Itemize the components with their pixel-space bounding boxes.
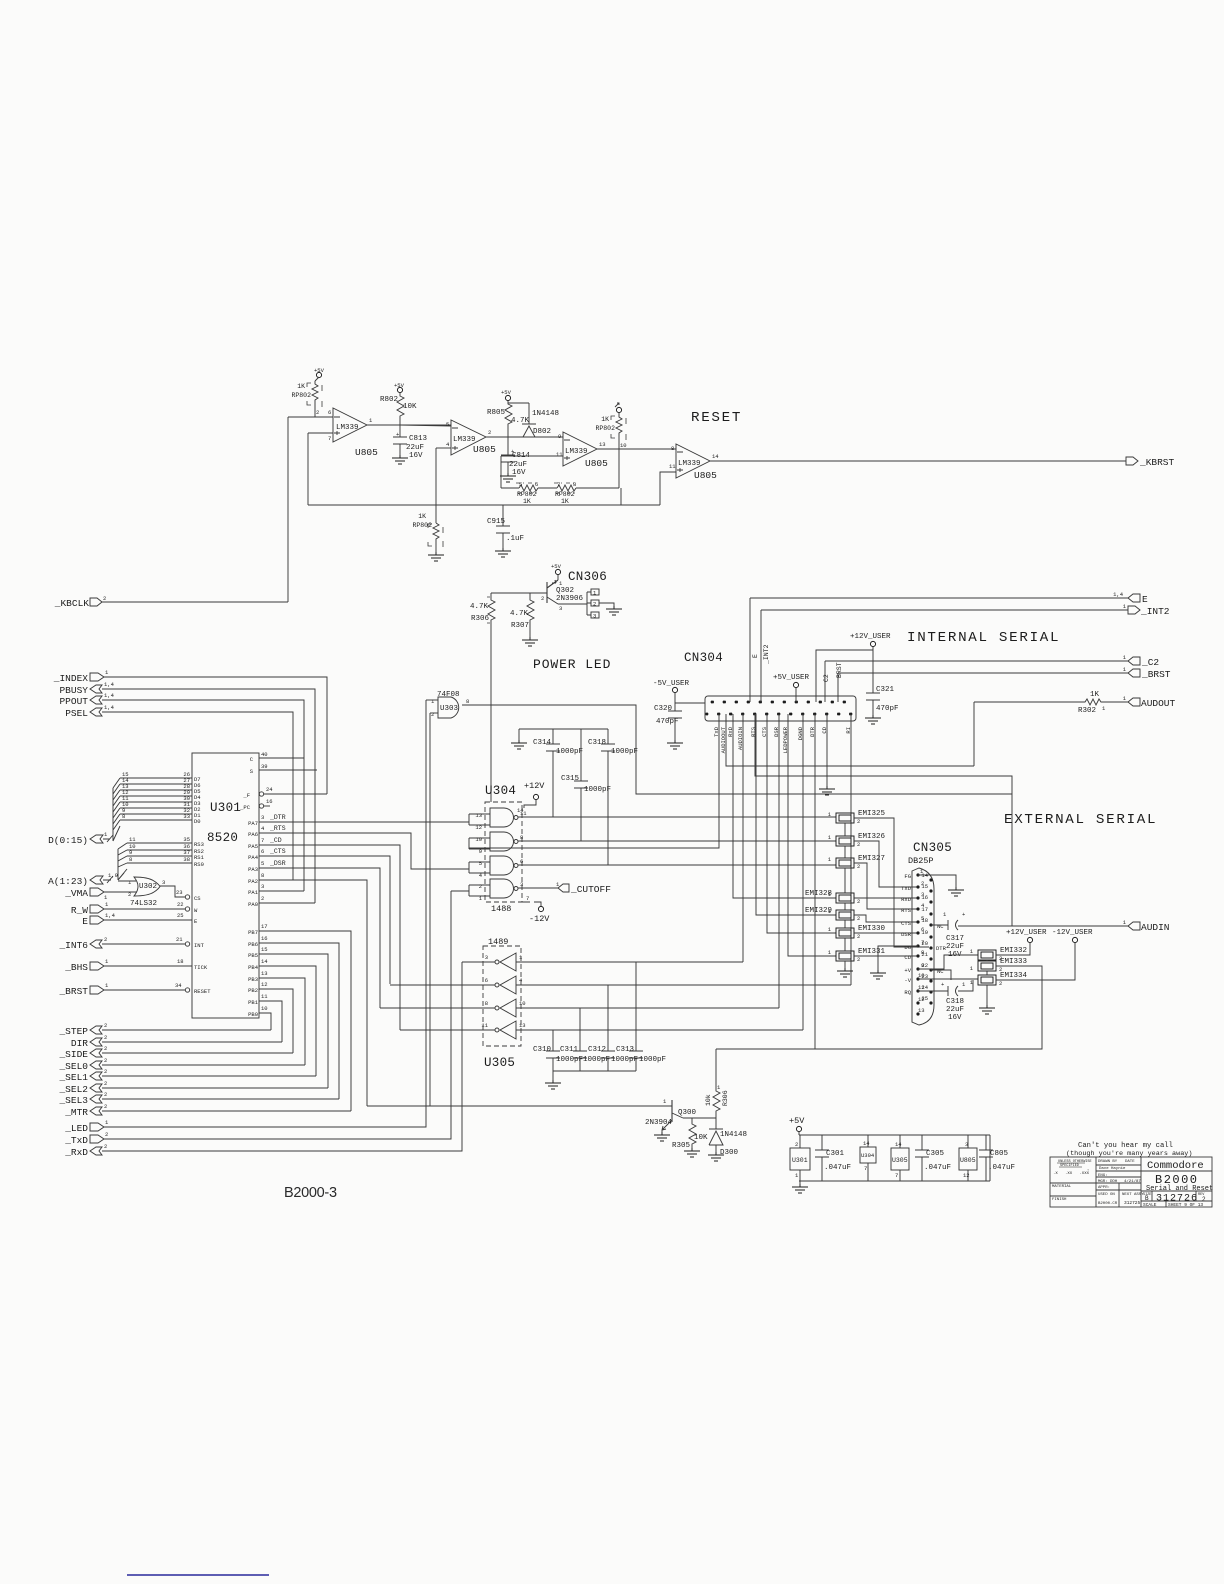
- svg-text:14: 14: [261, 958, 268, 965]
- port _CUTOFF: [518, 881, 611, 895]
- svg-text:2: 2: [104, 1103, 107, 1110]
- svg-text:9: 9: [479, 848, 482, 855]
- svg-text:+12V_USER: +12V_USER: [850, 633, 891, 641]
- svg-text:16: 16: [261, 935, 268, 942]
- svg-text:MATERIAL: MATERIAL: [1052, 1185, 1072, 1189]
- svg-text:_RxD: _RxD: [64, 1147, 88, 1158]
- svg-text:PA1: PA1: [248, 889, 259, 896]
- IC U304 1488 dashed box: [485, 802, 522, 902]
- svg-text:DB25P: DB25P: [908, 856, 934, 866]
- svg-text:_C2: _C2: [1141, 657, 1159, 668]
- svg-text:3: 3: [593, 613, 596, 620]
- svg-text:_BRST: _BRST: [1141, 669, 1171, 680]
- gate U304a NAND (DTR driver): [469, 808, 527, 831]
- svg-text:470pF: 470pF: [876, 705, 899, 713]
- node -5V_USER with C320: [653, 680, 705, 749]
- svg-text:_TxD: _TxD: [64, 1135, 88, 1146]
- +5V for Q302: [551, 563, 563, 587]
- svg-text:+: +: [941, 981, 944, 988]
- wire pin22 NC jog: [931, 970, 951, 979]
- table title block: [1050, 1157, 1213, 1208]
- wire CN304 AUDIOOUT column: [726, 714, 974, 766]
- capacitor C318 22uF 16V (series): [918, 980, 973, 1022]
- svg-text:2: 2: [479, 883, 482, 890]
- ground cap rail: [545, 1080, 561, 1089]
- svg-text:U805: U805: [473, 444, 496, 455]
- capacitor C305 .047uF: [915, 1135, 951, 1181]
- svg-text:+V: +V: [904, 967, 911, 974]
- svg-text:11: 11: [669, 463, 676, 470]
- port D(0:15): [48, 831, 113, 846]
- wire footer underline: [127, 1574, 269, 1576]
- svg-text:RP802: RP802: [595, 425, 615, 432]
- svg-text:22uF: 22uF: [946, 1006, 964, 1014]
- wire INT6 to pin21: [102, 943, 185, 945]
- svg-text:A(1:23): A(1:23): [48, 876, 88, 887]
- svg-text:_CTS: _CTS: [269, 848, 286, 855]
- pin PA6 _RTS: [259, 833, 469, 869]
- svg-text:C310: C310: [533, 1046, 552, 1054]
- svg-text:7: 7: [895, 1172, 898, 1179]
- svg-text:3: 3: [485, 954, 488, 961]
- wire CN304 RxD column: [733, 714, 836, 898]
- svg-text:-12V: -12V: [529, 914, 550, 924]
- svg-text:2: 2: [104, 936, 107, 943]
- svg-text:-5V_USER: -5V_USER: [653, 680, 690, 688]
- gate U302 74LS32 OR: [128, 877, 165, 908]
- svg-text:RxD: RxD: [901, 896, 912, 903]
- wire SIDE row: [102, 1052, 293, 1054]
- svg-text:7: 7: [526, 895, 529, 902]
- svg-text:9: 9: [129, 849, 132, 856]
- pin 39 SP: [259, 769, 317, 771]
- svg-text:25: 25: [177, 912, 184, 919]
- svg-text:PA5: PA5: [248, 843, 258, 850]
- svg-text:_F: _F: [242, 792, 250, 799]
- wire R_W to pin22: [104, 908, 185, 910]
- svg-text:17: 17: [921, 906, 928, 913]
- svg-text:10K: 10K: [403, 403, 417, 411]
- svg-text:3: 3: [261, 814, 264, 821]
- svg-text:_VMA: _VMA: [64, 888, 88, 899]
- svg-text:3: 3: [162, 879, 165, 886]
- pin PA2: [259, 880, 367, 1106]
- svg-text:8: 8: [122, 813, 125, 820]
- port _KBRST: [1126, 457, 1175, 468]
- svg-text:Can't you hear my call: Can't you hear my call: [1078, 1142, 1173, 1150]
- svg-text:5: 5: [519, 481, 522, 488]
- resistor RP802 pin3 1K to gnd: [412, 513, 444, 561]
- svg-text:RP802: RP802: [291, 392, 311, 399]
- svg-text:22uF: 22uF: [509, 461, 527, 469]
- svg-text:RTS: RTS: [901, 907, 912, 914]
- svg-text:_INT2: _INT2: [1140, 606, 1170, 617]
- svg-text:+5V_USER: +5V_USER: [773, 674, 810, 682]
- svg-text:_SEL0: _SEL0: [58, 1061, 88, 1072]
- svg-text:U304: U304: [861, 1152, 875, 1159]
- svg-text:1K: 1K: [1090, 691, 1100, 699]
- svg-text:1K: 1K: [297, 383, 305, 390]
- svg-text:22uF: 22uF: [946, 943, 964, 951]
- transistor Q302 2N3906 PNP: [541, 580, 584, 612]
- svg-text:EMI331: EMI331: [858, 948, 886, 956]
- svg-text:EMI327: EMI327: [858, 855, 885, 863]
- transistor Q300 2N3904 NPN: [645, 1098, 697, 1130]
- svg-text:PB7: PB7: [248, 929, 258, 936]
- svg-text:1000pF: 1000pF: [556, 1056, 583, 1064]
- wire LED row and riser to U303: [104, 700, 426, 1127]
- svg-text:U302: U302: [139, 883, 157, 891]
- svg-text:18: 18: [177, 958, 184, 965]
- svg-text:D(0:15): D(0:15): [48, 835, 88, 846]
- svg-text:2: 2: [857, 933, 860, 940]
- wire comp1 output row: [367, 424, 451, 426]
- svg-text:38: 38: [183, 856, 190, 863]
- capacitor C301 .047uF: [815, 1135, 851, 1181]
- svg-text:3: 3: [520, 881, 523, 888]
- wire CN304 RTS column: [756, 714, 836, 915]
- filter EMI327: [828, 855, 885, 870]
- svg-text:.047uF: .047uF: [924, 1164, 951, 1172]
- port _KBCLK: [54, 595, 107, 609]
- svg-text:7: 7: [261, 837, 264, 844]
- svg-text:INTERNAL SERIAL: INTERNAL SERIAL: [907, 630, 1060, 646]
- svg-text:7: 7: [864, 1165, 867, 1172]
- node -12V_USER external: [996, 929, 1093, 980]
- svg-text:2: 2: [488, 429, 491, 436]
- svg-text:DG: DG: [904, 944, 911, 951]
- wire RxD row and riser to U305 g1: [102, 962, 462, 1151]
- svg-text:+5V: +5V: [551, 563, 562, 570]
- svg-text:13: 13: [475, 812, 482, 819]
- svg-text:U805: U805: [355, 447, 378, 458]
- resistor pack RP802 1K (horizontal a): [516, 481, 538, 505]
- svg-text:U303: U303: [440, 705, 459, 713]
- svg-text:C915: C915: [487, 518, 506, 526]
- svg-text:2: 2: [857, 956, 860, 963]
- wire U303 input 2: [430, 712, 438, 714]
- svg-text:2: 2: [795, 1141, 798, 1148]
- wire power top bus: [799, 1134, 990, 1136]
- svg-text:_DSR: _DSR: [269, 860, 286, 867]
- svg-text:-12V_USER: -12V_USER: [1052, 929, 1093, 937]
- +12V for U304: [517, 781, 545, 814]
- svg-text:C318: C318: [946, 998, 964, 1006]
- ground CN306: [606, 606, 622, 615]
- op-amp U805 comparator 1 LM339: [328, 408, 378, 458]
- wire EMI333 to LED supply row: [716, 966, 1042, 1049]
- svg-text:PA7: PA7: [248, 820, 258, 827]
- wire DIR row: [102, 1041, 282, 1043]
- IC U301 8520 body: [192, 753, 259, 1018]
- svg-text:DIR: DIR: [71, 1038, 88, 1049]
- svg-text:Q302: Q302: [556, 587, 574, 595]
- pin 40 CNT: [259, 757, 304, 759]
- svg-text:RESET: RESET: [194, 988, 211, 995]
- wire EMI331 out to CD pin8: [854, 955, 918, 957]
- svg-text:RP802: RP802: [412, 522, 432, 529]
- capacitor C318a 1000pF: [588, 729, 638, 865]
- pin PB3: [259, 978, 305, 1065]
- wire U304d input feed: [451, 890, 469, 892]
- svg-text:5: 5: [261, 860, 264, 867]
- svg-text:_BRST: _BRST: [58, 986, 88, 997]
- ground EMI chain: [837, 968, 853, 977]
- svg-text:.047uF: .047uF: [824, 1164, 851, 1172]
- port _INDEX: [53, 669, 109, 684]
- capacitor C321 470pF: [865, 686, 899, 724]
- svg-text:D802: D802: [533, 428, 551, 436]
- port _BRST: [838, 666, 1171, 680]
- svg-text:C313: C313: [616, 1046, 635, 1054]
- pin PB6: [259, 943, 339, 1099]
- svg-text:PB3: PB3: [248, 976, 258, 983]
- wire EMI328 out to RxD pin3: [854, 897, 918, 899]
- svg-text:U305: U305: [484, 1056, 515, 1070]
- svg-text:74F08: 74F08: [437, 691, 460, 699]
- wire Q302 base row: [491, 592, 547, 594]
- connector CN306 pins: [587, 589, 599, 620]
- svg-text:EMI326: EMI326: [858, 833, 886, 841]
- wire D3 pin30: [120, 801, 192, 803]
- svg-text:RS3: RS3: [194, 841, 204, 848]
- svg-text:R305: R305: [672, 1142, 691, 1150]
- svg-text:CD: CD: [904, 954, 911, 961]
- svg-text:7: 7: [557, 481, 560, 488]
- wire comp2 + riser to RP802: [435, 448, 437, 523]
- wire U303 input 1: [426, 699, 438, 701]
- svg-text:1000pF: 1000pF: [639, 1056, 666, 1064]
- svg-text:PB0: PB0: [248, 1011, 258, 1018]
- wire CN304 TxD column: [469, 714, 719, 848]
- wire RS1 pin37: [127, 855, 192, 857]
- svg-text:14: 14: [895, 1141, 902, 1148]
- svg-text:8: 8: [261, 872, 264, 879]
- wire SEL0 row: [102, 1064, 305, 1066]
- svg-text:R307: R307: [511, 622, 529, 630]
- port _MTR: [64, 1103, 107, 1118]
- svg-text:1,4: 1,4: [104, 681, 115, 688]
- wire D1 pin32: [120, 813, 192, 815]
- svg-text:C312: C312: [588, 1046, 606, 1054]
- resistor R306 4.7K: [470, 593, 495, 623]
- svg-text:U301: U301: [792, 1157, 808, 1164]
- svg-text:CN306: CN306: [568, 570, 607, 584]
- svg-text:LM339: LM339: [678, 460, 701, 468]
- svg-text:7: 7: [328, 435, 331, 442]
- svg-text:R_W: R_W: [71, 905, 88, 916]
- svg-text:1K: 1K: [418, 513, 426, 520]
- svg-text:EMI334: EMI334: [1000, 972, 1028, 980]
- wire comp4 +input riser: [660, 472, 676, 505]
- svg-text:R805: R805: [487, 409, 506, 417]
- pin PB4: [259, 966, 316, 1076]
- wire INT2 riser: [760, 610, 762, 702]
- resistor R302 1K: [974, 691, 1128, 715]
- svg-text:34: 34: [175, 982, 182, 989]
- svg-text:10: 10: [261, 1005, 268, 1012]
- node +12V_USER external: [996, 929, 1047, 955]
- wire comp1 +input: [288, 416, 333, 418]
- wire comp1 -input: [308, 432, 333, 434]
- svg-text:_INT6: _INT6: [58, 940, 88, 951]
- svg-text:1K: 1K: [561, 498, 569, 505]
- resistor RP802 pin2 1K (comp1 + pull-up): [291, 381, 322, 417]
- svg-text:_SEL2: _SEL2: [58, 1084, 88, 1095]
- svg-text:C314: C314: [533, 739, 552, 747]
- svg-text:16V: 16V: [948, 1014, 962, 1022]
- svg-text:U805: U805: [694, 470, 717, 481]
- pin PA0: [259, 902, 315, 904]
- svg-text:RS1: RS1: [194, 854, 205, 861]
- svg-text:E: E: [82, 916, 88, 927]
- svg-text:4.7K: 4.7K: [510, 610, 529, 618]
- wire KBRST output row: [710, 460, 1126, 462]
- wire D4 pin29: [120, 795, 192, 797]
- gate U304d NAND (CUTOFF): [469, 879, 523, 902]
- svg-text:_BHS: _BHS: [64, 962, 88, 973]
- svg-text:DRAWN BY: DRAWN BY: [1098, 1160, 1118, 1164]
- wire U302 output to pin23: [160, 886, 185, 897]
- wire -V pin10 to EMI334: [918, 979, 978, 980]
- wire CN306 pin2 to ground: [599, 603, 614, 609]
- svg-text:PB4: PB4: [248, 964, 259, 971]
- svg-text:8: 8: [466, 698, 469, 705]
- svg-text:RESET: RESET: [691, 410, 742, 426]
- svg-text:R802: R802: [380, 396, 398, 404]
- port _SEL1: [58, 1068, 107, 1083]
- port _C2: [825, 654, 1159, 668]
- svg-text:C311: C311: [560, 1046, 579, 1054]
- svg-text:1K: 1K: [523, 498, 531, 505]
- gate U304b NAND (TxD driver): [469, 832, 523, 855]
- wire EMI326 out to TxD pin2: [854, 841, 918, 887]
- filter EMI332: [970, 947, 1027, 962]
- svg-text:PBUSY: PBUSY: [59, 685, 88, 696]
- svg-text:3: 3: [559, 605, 562, 612]
- svg-text:1488: 1488: [491, 904, 511, 914]
- wire U303 output: [462, 705, 1012, 794]
- wire Q302 collector to CN306: [558, 603, 587, 605]
- port AUDOUT: [1123, 695, 1176, 709]
- capacitor C813 22uF 16V: [392, 425, 428, 464]
- svg-text:NEXT ASSY: NEXT ASSY: [1122, 1193, 1144, 1197]
- wire Q300 base row: [367, 1105, 672, 1107]
- svg-text:6: 6: [485, 977, 488, 984]
- svg-text:10: 10: [475, 836, 482, 843]
- wire PBUSY row and riser to PA0: [102, 689, 315, 903]
- svg-text:1N4148: 1N4148: [720, 1131, 747, 1139]
- svg-text:13: 13: [519, 1022, 526, 1029]
- resistor R805 4.7K: [487, 389, 530, 437]
- svg-text:2: 2: [593, 601, 596, 608]
- svg-text:FG: FG: [904, 873, 911, 880]
- pin PA7 _DTR: [259, 821, 469, 823]
- svg-text:14: 14: [712, 453, 719, 460]
- svg-text:16V: 16V: [409, 452, 423, 460]
- svg-text:1000pF: 1000pF: [584, 786, 611, 794]
- svg-text:_SIDE: _SIDE: [58, 1049, 88, 1060]
- svg-text:+: +: [962, 911, 965, 918]
- svg-text:19: 19: [921, 929, 928, 936]
- svg-text:LM339: LM339: [565, 448, 588, 456]
- svg-text:_CD: _CD: [269, 837, 282, 844]
- port AUDIN: [1123, 919, 1170, 933]
- svg-text:BRST: BRST: [836, 662, 843, 678]
- svg-text:8: 8: [129, 856, 132, 863]
- svg-text:22: 22: [921, 962, 928, 969]
- svg-text:23: 23: [176, 889, 183, 896]
- svg-text:8: 8: [520, 834, 523, 841]
- svg-text:2: 2: [857, 818, 860, 825]
- svg-text:C315: C315: [561, 775, 580, 783]
- ground CN304 CD column: [819, 786, 835, 795]
- svg-text:11: 11: [261, 993, 268, 1000]
- svg-text:R302: R302: [1078, 707, 1096, 715]
- wire E riser: [749, 598, 751, 702]
- IC U305 power box: [891, 1135, 909, 1181]
- svg-text:2: 2: [857, 898, 860, 905]
- filter EMI334: [970, 972, 1028, 987]
- diode D802 1N4148: [508, 403, 559, 437]
- svg-text:RQ: RQ: [904, 989, 911, 996]
- svg-text:12: 12: [261, 981, 268, 988]
- ground FG: [948, 887, 964, 896]
- capacitor C814 22uF 16V: [500, 437, 531, 482]
- svg-text:4/21/87: 4/21/87: [1124, 1179, 1141, 1184]
- svg-text:5: 5: [446, 421, 449, 428]
- svg-text:_INT2: _INT2: [763, 644, 770, 665]
- svg-text:2: 2: [104, 1080, 107, 1087]
- pin PB0: [259, 1013, 271, 1030]
- svg-text:D0: D0: [194, 818, 201, 825]
- svg-text:-V: -V: [904, 977, 911, 984]
- IC U301 power box: [790, 1135, 810, 1181]
- wire CN304 LEDPOWER column: [788, 714, 836, 956]
- gate U304c NAND (RTS driver): [469, 856, 523, 879]
- port _INT2: [761, 603, 1170, 617]
- svg-text:2: 2: [431, 711, 434, 718]
- svg-text:33: 33: [183, 813, 190, 820]
- resistor pack RP802 1K (horizontal b): [554, 481, 576, 505]
- svg-text:22: 22: [177, 901, 184, 908]
- svg-text:+: +: [396, 431, 399, 438]
- svg-text:U304: U304: [485, 784, 516, 798]
- svg-text:16: 16: [921, 894, 928, 901]
- wire CN304 RI column: [850, 714, 852, 985]
- svg-text:2: 2: [541, 595, 544, 602]
- wire D7 pin26: [120, 777, 192, 779]
- capacitor C805 .047uF: [979, 1135, 1015, 1181]
- svg-text:PA2: PA2: [248, 878, 258, 885]
- svg-text:+12V_USER: +12V_USER: [1006, 929, 1047, 937]
- port _LED: [64, 1119, 109, 1134]
- svg-text:PA4: PA4: [248, 854, 259, 861]
- svg-text:CN304: CN304: [684, 651, 723, 665]
- pin PB5: [259, 954, 328, 1088]
- svg-text:8: 8: [485, 1000, 488, 1007]
- pin PA4 _CTS: [259, 856, 390, 984]
- svg-text:MGR: DDH: MGR: DDH: [1098, 1180, 1118, 1184]
- svg-text:5: 5: [479, 860, 482, 867]
- wire U304c output row to EMI327: [518, 864, 836, 866]
- diode D300 1N4148: [708, 1118, 747, 1161]
- svg-text:PB6: PB6: [248, 941, 258, 948]
- port PSEL: [65, 704, 114, 719]
- wire comp2 -input from R802 node: [400, 425, 451, 426]
- port _SEL2: [58, 1080, 107, 1095]
- pin PB2: [259, 989, 293, 1053]
